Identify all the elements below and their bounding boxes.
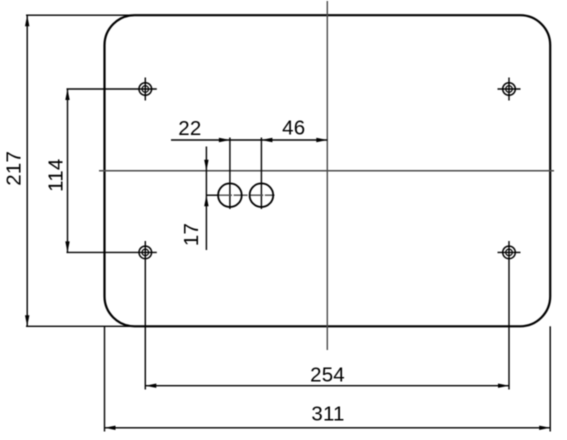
svg-text:22: 22 xyxy=(178,117,201,140)
svg-text:254: 254 xyxy=(310,363,345,386)
svg-text:217: 217 xyxy=(3,151,26,186)
svg-text:46: 46 xyxy=(282,116,305,139)
svg-text:17: 17 xyxy=(180,223,203,246)
svg-text:114: 114 xyxy=(45,159,68,192)
svg-text:311: 311 xyxy=(311,403,344,426)
